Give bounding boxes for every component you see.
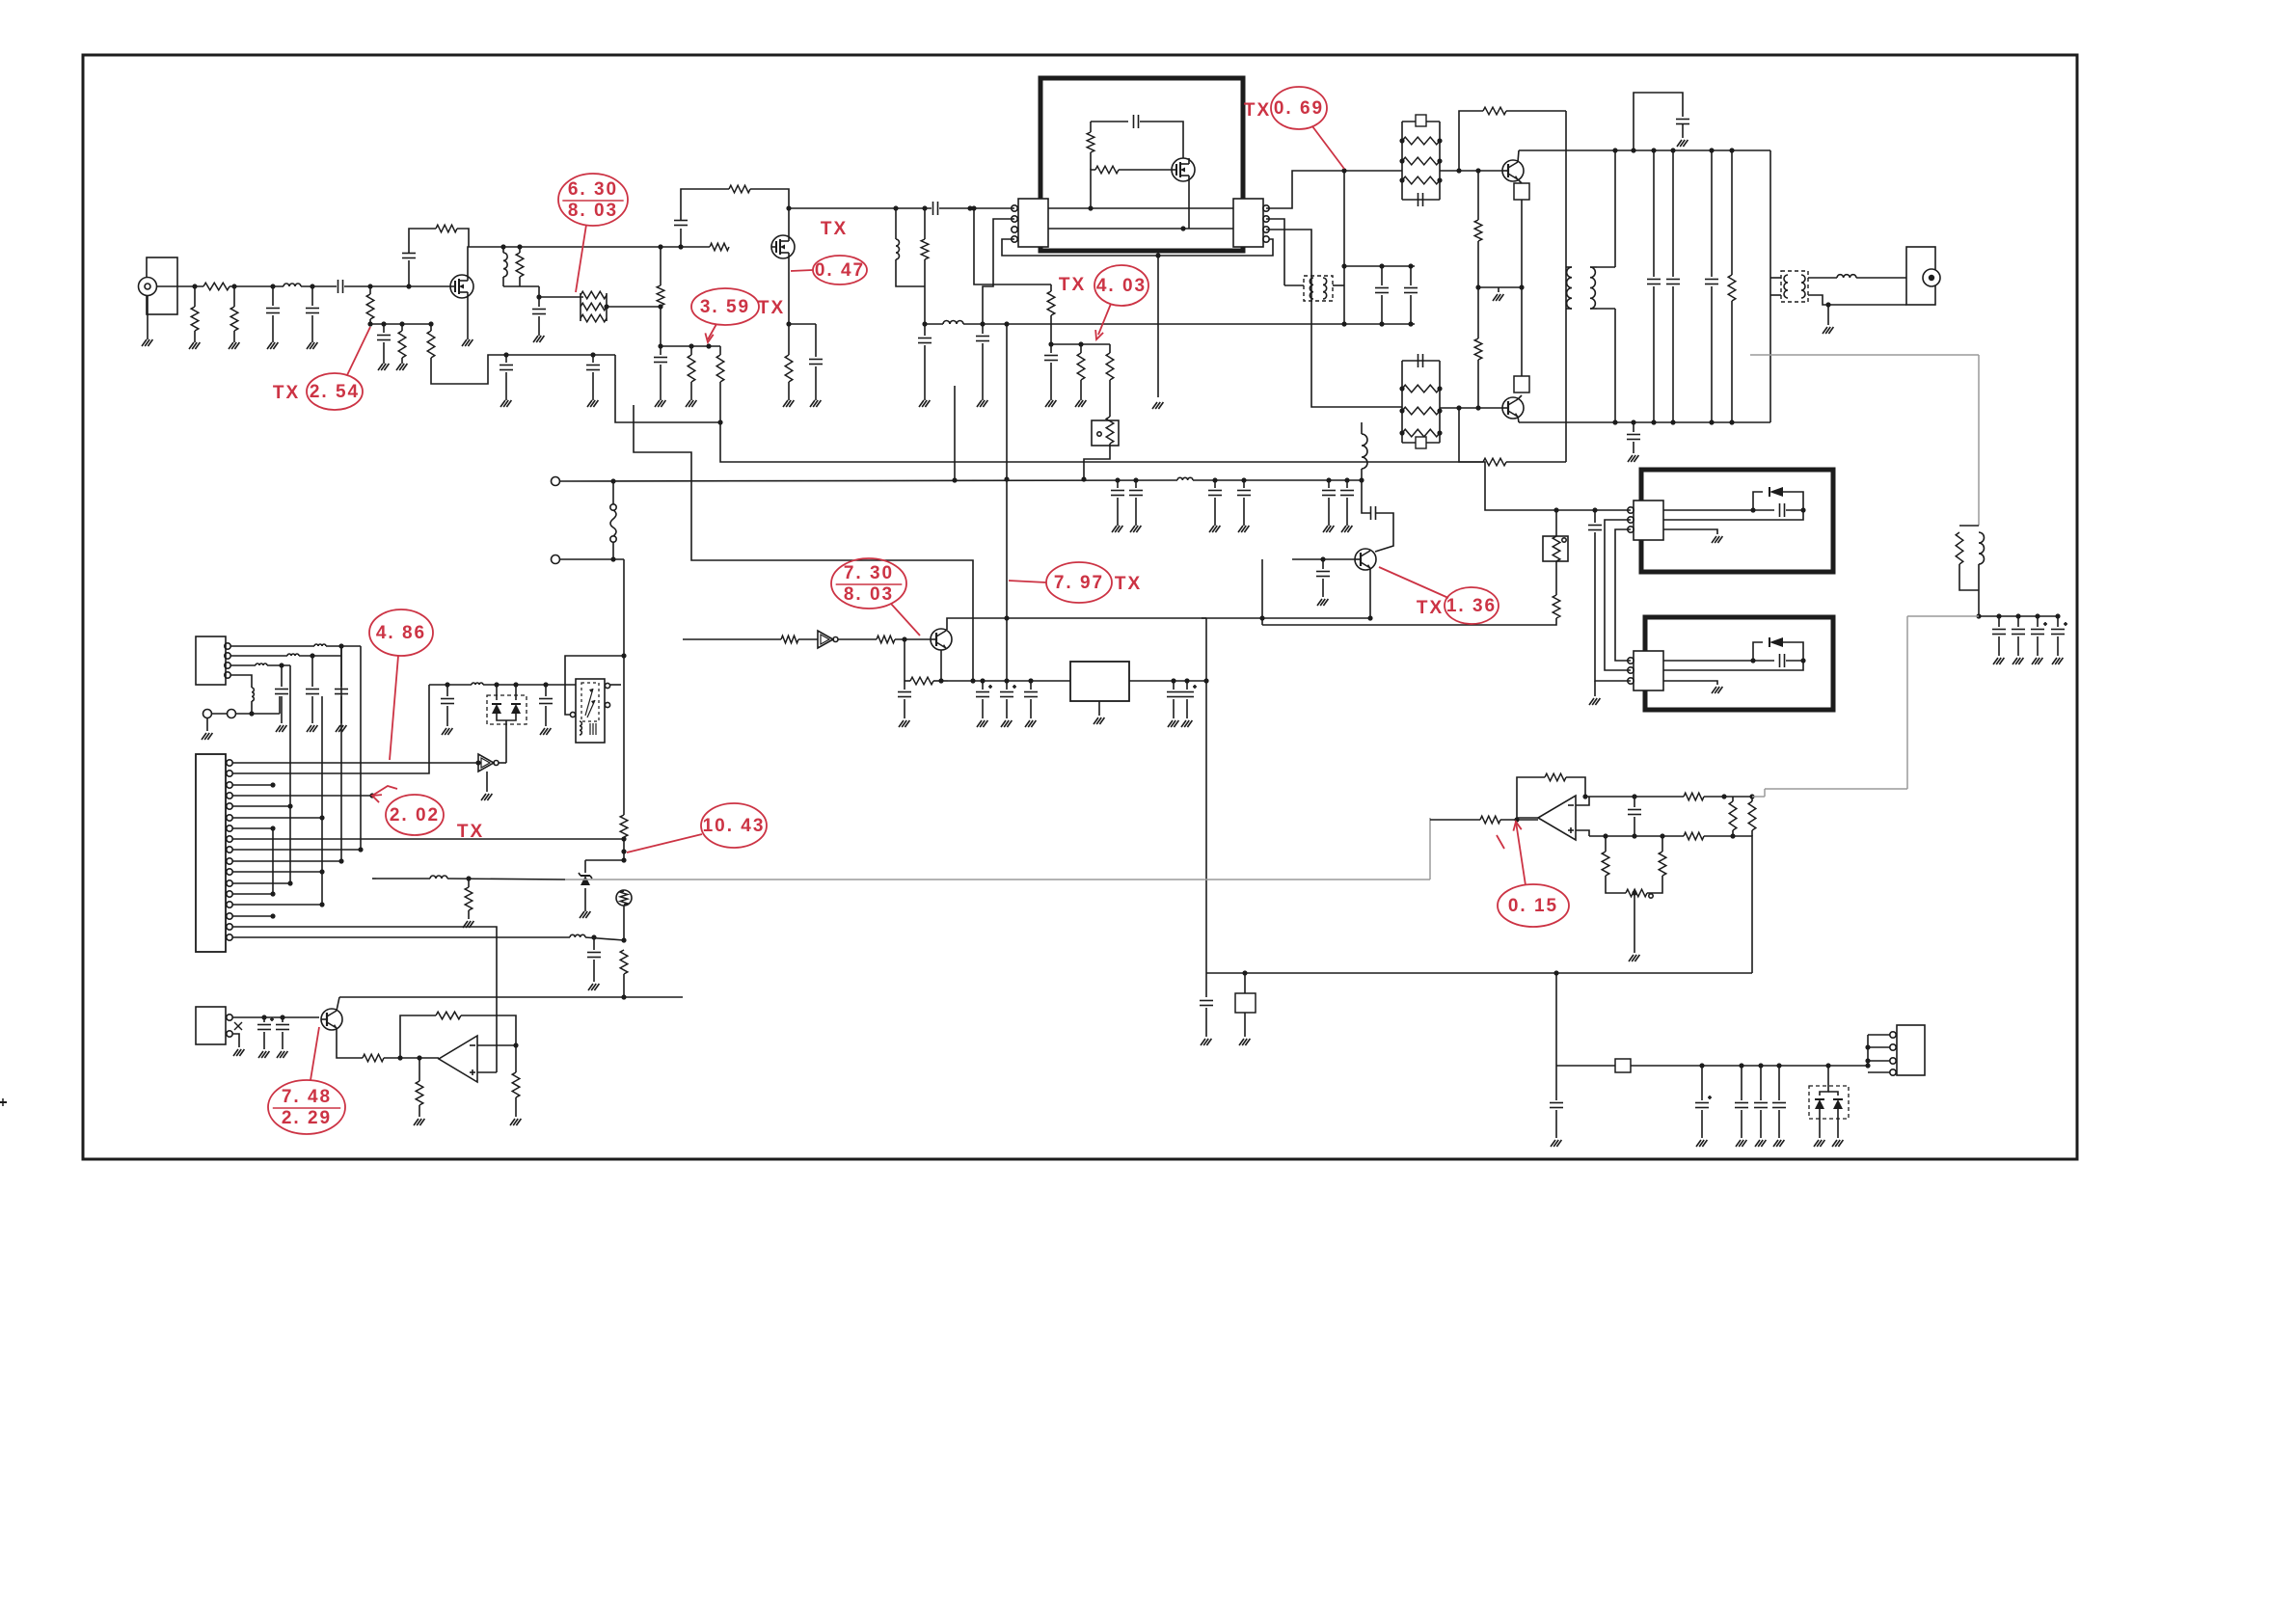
svg-text:2. 29: 2. 29 [282,1108,332,1128]
node pot mid [1632,890,1636,895]
node emitter mid [1519,284,1524,289]
wire Ci gnd [982,343,984,400]
capacitor Cf [532,309,546,311]
wire choke down [1361,469,1363,480]
pin U8-11 [227,869,232,875]
leader 0.15 [1516,822,1526,885]
node VR1 rail [1081,476,1086,481]
wire M1 cap row [1091,121,1128,122]
IC U5 connector [1634,651,1663,690]
capacitor Ci [976,336,989,338]
ground j3cap 292 [276,725,281,732]
wire reg out [1129,680,1206,682]
wire Cn stub [1410,266,1412,285]
IC U8 MCU [196,754,226,952]
wire Rh bottom [924,259,926,324]
node M1-a [1088,205,1093,210]
capacitor Cn [1404,287,1418,289]
resistor LD2-R2 [1402,407,1440,415]
IF T4 inner (dashed) [581,683,599,721]
ground railcap1 [1130,526,1135,532]
wire op2 row top [1585,796,1684,798]
wire Ce gnd [592,372,594,400]
wire railcap 1715 bot [1653,286,1655,422]
wire dd join [497,714,516,720]
wire J5 pin1 [1868,1034,1890,1036]
capacitor Cd [500,365,513,366]
resistor R-af [465,887,473,910]
wire M1 cap right [1140,122,1183,158]
resistor R-pot-r [1659,852,1666,876]
IC U2 connector left [1018,199,1048,247]
wire cr2 gnd [1006,699,1008,718]
wire zener gnd [584,888,586,911]
wire C1 to Q1 gate [344,285,450,287]
node o1 ext b [1749,794,1754,798]
pin J5-1 [1890,1032,1896,1038]
resistor R-drv2 [877,636,895,643]
node drain-1 [500,244,505,249]
buffer U9 bubble [494,761,499,766]
wire cq5c right [1375,513,1393,552]
ground sup 1765 [1696,1140,1701,1147]
pin U8-8 [227,836,232,842]
capacitor C-rail 1775 [1705,279,1718,281]
inductor L-det [472,683,483,685]
red flag 2.02 [372,786,397,796]
fuse F2 box [1235,993,1256,1013]
ground fbcap 2134 [2052,658,2057,664]
wire cq6 gnd [904,699,905,718]
buffer bubble [833,637,838,642]
wire Rj lead [1050,284,1052,291]
wire op2 minus [1576,797,1589,805]
wire term row2 [236,713,281,715]
ballast resistor Q3 [1514,183,1529,200]
node balun bot [1341,321,1346,326]
node J5 bus a [1865,1044,1870,1049]
wire op out r [515,1045,517,1072]
node q5 feed [1259,615,1264,620]
wire op fb [400,1015,436,1058]
ground zener [580,911,584,918]
ground det in [1589,698,1594,705]
ground j4c2 [277,1051,282,1058]
ground Cg [655,400,660,407]
wire switched rail down [623,559,625,815]
pin U3-R2 [1263,216,1269,222]
wire op minus [477,1044,516,1046]
node fbcap 2073 [1996,613,2001,618]
pin J5-2 [1890,1044,1896,1050]
resistor R-M1 gate [1095,166,1119,174]
wire railcap 1715 top [1653,150,1655,277]
wire gray fb top [1750,354,1979,356]
label 7.48/2.29 [268,1080,345,1134]
inductor L2 drain load [503,253,507,277]
resistor LD1-R1 [1402,137,1440,145]
wire det link1 [1605,520,1631,670]
label 0.15 [1498,884,1569,927]
wire fbcap 2113 gnd [2037,636,2039,656]
capacitor C-sup 1765 [1695,1102,1709,1104]
wire swr2 top [1751,797,1753,801]
wire det1 diode loop [1753,492,1763,510]
svg-text:10. 43: 10. 43 [703,816,766,836]
wire U8 pin14 [232,904,322,906]
capacitor C-coup2 [932,202,934,215]
wire af left frame stub [372,878,376,880]
capacitor C-q5 [1316,571,1330,573]
capacitor C-p17 [587,952,601,954]
wire M1 source [1188,181,1190,229]
capacitor C-j3 324 [306,689,319,690]
node op minus [513,1042,518,1047]
wire detc1 stub [446,685,448,696]
ground j3cap 354 [336,725,340,732]
ground Cf [533,336,538,342]
wire Rc stub [401,324,403,331]
wire VR1 bottom [1084,444,1110,479]
wire j3 p1 [230,645,314,647]
pin T4-2 [605,683,609,688]
wire fan x374 [360,646,362,850]
wire J1 ground stub [147,295,149,339]
node sup diodes [1825,1063,1830,1068]
resistor R-op-p [416,1081,423,1105]
node drain2-1 [893,205,898,210]
wire sup 1826 gnd [1760,1110,1762,1138]
ground Cj [919,400,924,407]
wire Rg gnd [788,382,790,400]
ground Rc [396,364,401,370]
wire Rd to lower rail [431,355,615,384]
node U8 pin15 [270,913,275,918]
wire Rd stub [430,324,432,331]
resistor R-M1 [1087,132,1094,152]
resistor Rf [716,355,724,382]
capacitor C-det-in [1588,525,1602,527]
ground dsup2 [1832,1140,1837,1147]
wire j3cap 292 gnd [281,696,283,723]
ground Cc [378,364,383,370]
resistor R-drv1 [781,636,798,643]
node toprail 1796 [1729,148,1734,152]
ground op out [510,1119,515,1125]
wire C-q6 stub [904,681,905,690]
connector J4 mic [196,1007,226,1044]
wire term gnd [206,717,208,731]
capacitor C-fb Q2 [674,225,688,227]
pin T4-1 [570,712,575,717]
wire under-box gnd stub [1157,256,1159,397]
node q5 emitter rail [1367,615,1372,620]
inductor L-j3b [287,654,299,656]
wire source row [789,323,816,325]
wire fbcap 2134 gnd [2057,636,2059,656]
wire q6 bias left [905,680,910,682]
wire T3 sec bottom [1808,295,1906,305]
resistor R-fb-net [1956,532,1963,564]
node input-2 [231,284,236,288]
wire cr4 gnd [1173,699,1175,718]
inductor L-p17 [570,934,585,937]
pin U3-R3 [1263,227,1269,232]
fuse F1 [610,504,616,510]
wire U8 pin4 [232,795,372,797]
wire pin17b [585,937,624,940]
wire drv base [895,638,931,640]
wire balun left lead [1284,284,1304,286]
wire Ch gnd [815,366,817,400]
wire j4c1 stub [263,1017,265,1022]
transistor Q4 NPN PA [1502,397,1524,419]
wire 13.8 coil [1193,479,1362,481]
node zener row [621,857,626,862]
capacitor C-det2s [539,698,553,700]
node sup 1826 [1758,1063,1763,1068]
trimmer pot VR1 box [1092,420,1119,446]
wire gray fb link [1765,788,1907,790]
capacitor C-j4a [257,1024,271,1026]
wire dd2 stub2 [1828,1092,1838,1096]
inductor L-ant [1837,275,1856,278]
resistor R-rail [1728,275,1736,301]
ladder LD2 frame [1401,361,1403,443]
transistor Q7 audio [321,1009,342,1030]
wire x1624 vertical [1565,111,1567,462]
wire swr2 bot [1751,830,1753,836]
resistor R-op-o [512,1072,520,1097]
wire PA bottom rail [1519,421,1770,423]
node base1-b [1475,168,1480,173]
wire j3 p2b [299,655,341,657]
resistor VR2 [1553,536,1560,561]
trimmer VR2 marker [1562,538,1566,542]
node U8 pin9 [358,847,363,852]
svg-text:7. 30: 7. 30 [844,563,894,583]
wire cr5 gnd [1186,699,1188,718]
node botrail 1675 [1612,420,1617,424]
wire cq5c left [1362,509,1370,513]
wire T3 in top [1770,277,1781,279]
label 0.47 [813,256,867,284]
node regout-2 [1184,678,1189,683]
wire op fb2 [461,1015,516,1045]
node Q2 bias bottom [658,343,662,348]
wire T3 out [1808,277,1837,279]
ground fbcap 2093 [2012,658,2017,664]
wire pot gnd [1634,893,1635,953]
leader 0.69 [1312,126,1344,169]
resistor R1 series [203,283,230,290]
wire Q1 source [467,298,469,339]
wire fb2 right [1506,461,1566,463]
wire opo gnd [515,1097,517,1117]
ground fuse2 [1239,1039,1244,1045]
wire op2 c stub [1634,797,1635,807]
wire fbcap 2073 gnd [1998,636,2000,656]
terminal switch out [552,555,560,564]
wire Q4 collector [1518,417,1519,422]
label 4.03 [1094,265,1148,306]
leader 1.36 [1379,567,1448,598]
wire Cq gnd [1633,442,1634,453]
capacitor LD1-C [1418,193,1419,206]
ground Cd [500,400,505,407]
svg-text:0. 69: 0. 69 [1274,98,1324,119]
wire under box [1002,239,1273,256]
wire M1 int bus2 [1048,228,1233,230]
wire railcap1 gnd [1135,498,1137,526]
leader 2.54 [347,327,370,375]
pin J4-2 [227,1031,232,1037]
wire reg rail [948,680,1070,682]
ferrite bead FB1 [1416,115,1426,126]
wire railcap3 gnd [1243,498,1245,526]
wire Rb gnd [233,331,235,342]
wire gray fb left [1907,615,1979,617]
wire J5 pin3 [1868,1060,1890,1062]
node 4.03 b [1078,341,1083,346]
resistor R-o1 [1684,793,1704,800]
wire Cq stub [1633,422,1634,432]
node j4 c2 [280,1015,284,1019]
node regin 1019 [980,678,985,683]
wire cr1 gnd [982,699,984,718]
wire railcap2 stub [1214,480,1216,488]
wire pin8 long [232,838,624,840]
svg-text:TX: TX [457,822,484,842]
pin U3-R4 [1263,236,1269,242]
resistor LD1-R3 [1402,176,1440,184]
wire pot net l [1605,836,1607,852]
wire det1 line3 [1663,529,1717,534]
capacitor Ca shunt [266,308,280,310]
capacitor C-fb Q1 [402,253,416,255]
node balun top [1341,263,1346,268]
wire 13.8 rail [560,480,1177,481]
wire railR top [1731,150,1733,275]
node J5 bus c [1865,1063,1870,1068]
node fbcap 2113 [2035,613,2039,618]
ground Re [686,400,690,407]
wire det1 line1 [1663,509,1774,511]
wire term net up [279,696,281,714]
wire U8 pin13 [232,893,273,895]
node rail-a [610,478,615,483]
wire U9 out [499,762,506,764]
label 1.36 [1445,587,1499,624]
wire R2 bottom [369,319,371,324]
wire match down [1006,324,1008,618]
wire zener stub [584,860,586,873]
wire U8 pin9 [232,849,361,851]
wire fb1 left [1459,111,1483,171]
wire Q3 emitter [1518,179,1522,183]
wire Q6 base bias down [904,639,905,681]
wire shunt Cb [311,286,313,306]
wire Q4 ballast up [1521,287,1523,376]
node bias2 top [971,205,976,210]
node det c1 [445,682,449,687]
wire J5 bus [1867,1035,1869,1066]
node TX0.69 [1341,168,1346,173]
wire load row down [538,286,540,297]
capacitor C-det1s [441,698,454,700]
wire fan x354 [340,646,342,861]
wire T2 sec stubs [1566,266,1572,268]
connector J1 antenna input [147,257,177,314]
pin U8-7 [227,826,232,831]
wire U8 pin7 [232,827,273,829]
wire j3 p3 [230,664,256,666]
resistor VR3 [1626,889,1647,897]
wire fbcap 2093 gnd [2017,636,2019,656]
node pre-box [967,205,972,210]
ground q6 cap [899,720,904,727]
node Q2 bias join [658,304,662,309]
wire Rk gnd [1080,380,1082,400]
node base2-b [1475,405,1480,410]
resistor R-op2-fb [1545,773,1566,781]
transformer T3 output (dashed) [1781,271,1808,302]
node j3cap 354 [338,643,343,648]
pin U8-5 [227,803,232,809]
node drain2-2 [922,205,927,210]
ground Q1 source [462,339,467,346]
capacitor Cb shunt [306,308,319,310]
node U8 pin10 [338,858,343,863]
pin U8-4 [227,793,232,798]
coil T3 secondary [1801,275,1805,298]
wire RL split top [1959,525,1979,527]
node LD1 dots [1399,138,1404,143]
diode D-sup1 [1815,1099,1824,1109]
capacitor Ch source [809,359,823,361]
node U8 pin5 [287,803,292,808]
pin J3-4 [225,672,230,678]
node botrail 1796 [1729,420,1734,424]
wire j3 p3b [267,664,290,666]
wire LD1 out [1440,170,1502,172]
wire railcap4 stub [1328,480,1330,488]
capacitor C-j3 292 [275,689,288,690]
trimmer VR3 marker [1649,894,1653,898]
node det d1 [494,682,499,687]
wire op2 fb2 [1566,777,1585,797]
wire Cm stub [1381,266,1383,285]
wire gray fb vert [1978,355,1980,526]
wire bias node row [370,323,431,325]
resistor inside lamp [620,891,628,905]
node term2 [610,556,615,561]
node U8 pin6 [319,815,324,820]
wire balun top tap [1343,171,1345,326]
node match-1 [922,321,927,326]
leader 7.48 [311,1027,319,1080]
wire fb1 right [1506,110,1566,112]
wire fb caps row [1979,615,2058,617]
wire Q2 fb right [750,189,789,208]
wire railcap3 stub [1243,480,1245,488]
svg-text:8. 03: 8. 03 [568,201,618,221]
ground q5 cap [1317,599,1322,606]
pin J3-3 [225,663,230,668]
wire load row [503,285,539,287]
wire Cj gnd [924,345,926,400]
ground p17 cap [588,984,593,990]
